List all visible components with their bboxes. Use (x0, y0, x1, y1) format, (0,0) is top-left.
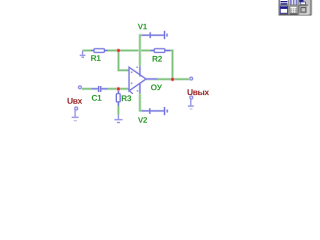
wire R2 to output node (165, 51, 173, 80)
wire op-amp output to terminal Uvyx (146, 78, 189, 81)
label Uvyx (188, 89, 210, 95)
wire op-amp V- pin down to battery V2 (140, 93, 143, 111)
label C1 (92, 95, 102, 101)
label V2 (138, 117, 147, 123)
probe P1 dash (74, 120, 77, 122)
terminal Uvyx (output) (190, 77, 193, 80)
label Uvx (68, 98, 83, 104)
junction node B (C1/R3/noninverting input) (116, 87, 120, 91)
toolbar button: pressed square icon (299, 5, 309, 14)
label R3 (122, 95, 131, 101)
toolbar fragment (top right) (279, 0, 313, 16)
wire node A down to op-amp inverting input (119, 51, 130, 71)
ground GND1 (80, 51, 86, 58)
capacitor C1 (92, 86, 108, 92)
label R1 (91, 55, 101, 61)
battery V2 (142, 107, 167, 115)
junction node A (R1/R2/inverting input) (116, 48, 120, 52)
op-amp bottom vertex tail (129, 91, 133, 94)
probe symbol P1 (under Uvx) (72, 107, 79, 117)
wire R3 to ground GND2 (117, 102, 120, 115)
wire node B down to R3 (117, 89, 120, 94)
probe symbol P2 (under Uvyx) (188, 96, 194, 106)
resistor R2 (150, 49, 170, 53)
wire input terminal to C1 (82, 87, 98, 90)
toolbar button: cascade icon (cut) (299, 0, 303, 2)
ground GND2 (below R3) (114, 115, 122, 123)
terminal Uvx (input) (79, 86, 82, 89)
toolbar button: window icon (280, 6, 287, 13)
wire op-amp V+ pin up to battery V1 (140, 35, 143, 66)
op-amp U1 (OU) (127, 66, 157, 94)
label V1 (138, 24, 147, 30)
wire C1 to op-amp noninverting input (node B) (101, 87, 129, 90)
toolbar column separators (287, 0, 290, 15)
toolbar button: tile-vertical icon (cut) (290, 0, 297, 5)
label R2 (153, 56, 162, 62)
toolbar button: tile-horizontal icon (cut) (280, 0, 287, 5)
battery V1 (142, 31, 167, 39)
op-amp input/pin marks (131, 71, 133, 73)
probe P2 dash (190, 108, 193, 110)
resistor R3 (116, 90, 120, 105)
label OU (151, 84, 162, 90)
wire R1 to R2 (node A row) (104, 49, 154, 52)
toolbar button: table icon (290, 6, 297, 13)
resistor R1 (91, 49, 108, 53)
junction node OUT (R2/output) (170, 77, 174, 81)
wire ground GND1 to R1 (83, 49, 94, 52)
